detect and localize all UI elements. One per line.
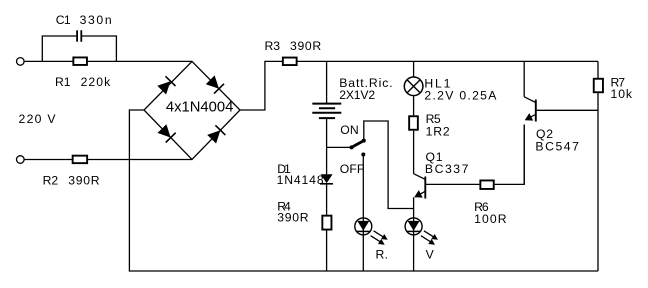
diode D1 1N4148 xyxy=(320,174,333,184)
label R. xyxy=(376,248,389,262)
label R3 390R xyxy=(265,39,322,53)
label OFF xyxy=(340,162,365,176)
svg-text:R.: R. xyxy=(376,248,389,262)
lamp HL1 xyxy=(404,77,423,96)
wire negative rail left drop and bottom rail xyxy=(129,110,598,271)
label V xyxy=(426,248,435,262)
wire LED R to bottom rail xyxy=(362,236,364,272)
label BC337 xyxy=(425,162,469,176)
wire C1 branch xyxy=(42,36,116,61)
label 2.2V 0.25A xyxy=(424,89,497,103)
transistor Q2 BC547 xyxy=(524,97,536,122)
diode bridge top-right xyxy=(206,75,224,93)
wire top AC line xyxy=(24,60,192,62)
wire Q2 base to R7 node xyxy=(536,109,598,111)
resistor R2 xyxy=(73,156,88,164)
label 2X1V2 xyxy=(339,88,375,102)
svg-text:1R2: 1R2 xyxy=(426,124,450,138)
label R6 100R xyxy=(474,212,507,226)
resistor R4 xyxy=(322,216,331,230)
svg-text:R1: R1 xyxy=(55,75,71,89)
resistor R3 xyxy=(283,58,297,66)
label ON xyxy=(340,123,359,137)
svg-text:390R: 390R xyxy=(277,211,308,225)
svg-text:220k: 220k xyxy=(81,75,112,89)
switch OFF contact dot xyxy=(361,153,365,157)
label Q1 xyxy=(426,150,443,164)
label 4x1N4004 xyxy=(166,100,233,116)
label Batt.Ric. xyxy=(339,76,393,90)
label 220 V xyxy=(19,112,57,126)
svg-text:330n: 330n xyxy=(80,13,112,27)
wire ON contact to emitter node xyxy=(364,121,414,209)
diode bridge bottom-left xyxy=(158,124,176,142)
svg-text:R2: R2 xyxy=(43,174,59,188)
svg-text:10k: 10k xyxy=(611,87,633,101)
svg-text:390R: 390R xyxy=(290,39,321,53)
switch arm xyxy=(352,141,364,148)
label 1N4148 xyxy=(277,173,324,187)
switch ON contact dot xyxy=(362,139,366,143)
LED V xyxy=(405,217,438,244)
wire R5 to Q1 collector xyxy=(413,131,415,174)
wire R4 to bottom rail xyxy=(326,231,328,272)
label R6 xyxy=(474,200,489,214)
resistor R6 xyxy=(480,180,493,189)
svg-text:BC547: BC547 xyxy=(535,140,579,154)
wire OFF contact to LED R xyxy=(362,155,364,218)
terminal T2 line input bottom xyxy=(17,156,25,164)
svg-text:ON: ON xyxy=(340,123,359,137)
resistor R1 xyxy=(73,57,87,64)
svg-text:2.2V 0.25A: 2.2V 0.25A xyxy=(424,89,497,103)
svg-text:2X1V2: 2X1V2 xyxy=(339,88,375,102)
label 10k xyxy=(611,87,633,101)
label BC547 xyxy=(535,140,579,154)
label 1R2 xyxy=(426,124,450,138)
diode bridge top-left xyxy=(157,76,175,94)
wire Q2 collector xyxy=(523,61,525,96)
bridge rectifier diamond xyxy=(144,61,240,159)
wire R6 to Q2 emitter xyxy=(495,125,525,185)
capacitor C1 xyxy=(77,30,81,41)
label R1 220k xyxy=(55,75,111,89)
label R7 xyxy=(611,75,626,89)
label C1 330n xyxy=(56,13,112,27)
svg-text:1N4148: 1N4148 xyxy=(277,173,324,187)
svg-text:OFF: OFF xyxy=(340,162,365,176)
label R5 xyxy=(426,112,441,126)
wire lamp to R5 xyxy=(413,96,415,115)
LED red R. xyxy=(355,217,388,244)
svg-text:100R: 100R xyxy=(474,212,507,226)
wire Q2 emitter drop xyxy=(523,125,525,185)
wire bottom AC line xyxy=(24,159,192,161)
svg-text:390R: 390R xyxy=(68,174,99,188)
wire switch common xyxy=(327,146,352,148)
transistor Q1 BC337 xyxy=(414,174,426,199)
wire Q1 emitter to LED V xyxy=(413,197,415,217)
svg-text:BC337: BC337 xyxy=(425,162,469,176)
label Q2 xyxy=(536,127,553,141)
wire battery bottom xyxy=(326,118,328,174)
svg-text:C1: C1 xyxy=(56,13,71,27)
battery Batt.Ric. 2X1V2 xyxy=(312,104,341,119)
svg-text:220 V: 220 V xyxy=(19,112,57,126)
wire Q1 base to R6 xyxy=(425,183,479,185)
label R4 390R xyxy=(277,211,308,225)
wire lamp top xyxy=(413,61,415,76)
svg-text:V: V xyxy=(426,248,435,262)
label HL1 xyxy=(424,76,450,90)
diode bridge bottom-right xyxy=(207,125,225,143)
resistor R5 xyxy=(409,116,418,130)
wire battery top xyxy=(326,61,328,103)
label R4 xyxy=(277,200,291,214)
switch common pole dot xyxy=(350,145,354,149)
label R2 390R xyxy=(43,174,100,188)
svg-text:4x1N4004: 4x1N4004 xyxy=(166,100,233,116)
terminal T1 line input top xyxy=(17,58,25,66)
label D1 xyxy=(277,162,291,176)
wire LED V to bottom rail xyxy=(413,236,415,272)
wire positive output to top rail xyxy=(240,61,598,110)
resistor R7 xyxy=(594,79,603,93)
wire right column xyxy=(597,61,599,271)
wire D1 to R4 xyxy=(326,183,328,214)
svg-text:R3: R3 xyxy=(265,39,281,53)
